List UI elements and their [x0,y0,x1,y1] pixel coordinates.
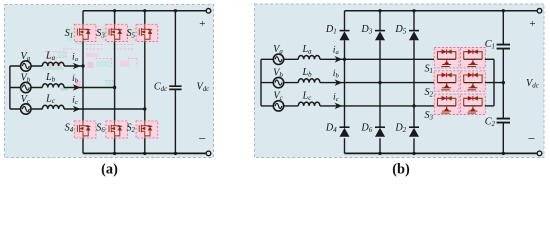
wire S1 output to bus [485,58,494,60]
inductor Lb (a) [42,84,64,88]
wire phase b row (a) [10,87,115,89]
diode D2 [409,126,419,128]
wire leg 1 (a) [82,11,84,154]
switch S5 : dashed box [136,24,158,41]
svg-text:(a): (a) [101,162,118,178]
wire diode leg 2 (b) [379,11,381,154]
inductor Lb (b) [298,79,320,83]
switch unit S3 right : dashed box [461,94,486,114]
junction cap top rail (a) [174,9,177,12]
wire S3 output to bus [485,105,494,107]
inductor La (b) [298,56,320,60]
switch S4 : MOSFET with antiparallel diode [77,121,88,138]
junction midpoint on cap branch (b) [502,81,505,84]
junction leg2 bottom rail (b) [378,152,381,155]
wire leg 2 (a) [114,11,116,154]
junction leg2 bot rail bottom (a) [113,152,116,155]
panel (b) background [255,4,545,158]
wire bottom rail (b) [345,152,540,154]
wire bottom rail (a) [83,152,209,154]
switch unit S3 left : dashed box [434,94,459,114]
switch unit S1 right : device [464,52,482,60]
source Vc (a) [21,104,31,114]
source Vc (b) [273,101,283,111]
svg-text:+: + [529,18,535,30]
terminal - (b) [537,151,542,156]
terminal + (a) [206,9,211,14]
wire phase b row (b) [261,82,434,84]
current arrow ia (a) [74,63,80,68]
switch S5 : MOSFET with antiparallel diode [139,24,150,41]
switch unit S2 right : device [464,75,482,83]
inductor Lc (b) [298,102,320,106]
svg-text:(b): (b) [392,162,410,178]
junction leg2 top rail (b) [378,9,381,12]
wire left bus (a) [9,66,11,109]
switch unit S3 right : device [464,98,482,106]
capacitor C2 plates [497,119,510,123]
capacitor Cdc plates [169,86,181,89]
current arrow ib (a) [74,85,80,90]
wire phase c row (b) [261,105,434,107]
junction phase c to diode leg (b) [412,104,415,107]
source Va (a) [21,61,31,71]
wire midpoint bus vertical [493,59,495,106]
capacitor Cdc branch wire [174,11,176,154]
source Va (b) [273,54,283,64]
wire diode leg 1 (b) [344,11,346,154]
diode D6 [375,126,385,128]
switch S6 : MOSFET with antiparallel diode [109,121,120,138]
junction phase b to diode leg (b) [378,81,381,84]
switch S6 : dashed box [106,121,128,138]
junction phase a to leg (a) [81,64,84,67]
switch unit S2 right : dashed box [461,71,486,91]
wire top rail (b) [345,10,540,12]
switch S1 : dashed box [74,24,96,41]
current arrow ib (b) [335,80,341,85]
wire top rail (a) [83,10,209,12]
current arrow ic (b) [335,103,341,108]
wire phase a row (a) [10,65,83,67]
svg-text:−: − [528,131,535,146]
terminal - (a) [206,151,211,156]
wire leg 3 (a) [144,11,146,154]
wire phase c row (a) [10,108,145,110]
wire phase a row (b) [261,58,434,60]
junction leg3 bottom rail (b) [412,152,415,155]
svg-text:+: + [199,18,205,30]
switch S4 : dashed box [74,121,96,138]
capacitor branch wire (b) [502,11,504,154]
panel (a) background [5,5,214,158]
junction cap top rail (b) [502,9,505,12]
junction leg3 top rail (b) [412,9,415,12]
switch S2 : dashed box [136,121,158,138]
switch unit S1 left : device [437,52,455,60]
diode D4 [340,126,350,128]
junction phase a to diode leg (b) [343,58,346,61]
wire S2 output to capacitor midpoint [485,82,503,84]
junction phase c to leg (a) [143,107,146,110]
wire left bus (b) [260,59,262,106]
wire diode leg 3 (b) [413,11,415,154]
source Vb (b) [273,77,283,87]
diode D1 [340,30,350,32]
source Vb (a) [21,82,31,92]
terminal + (b) [537,9,542,14]
inductor La (a) [42,62,64,66]
switch S2 : MOSFET with antiparallel diode [139,121,150,138]
current arrow ia (b) [335,57,341,62]
diode D5 [409,30,419,32]
junction leg3 bot rail bottom (a) [143,152,146,155]
switch unit S3 left : device [437,98,455,106]
switch unit S1 right : dashed box [461,48,486,68]
current arrow ic (a) [74,106,80,111]
junction phase b to leg (a) [113,86,116,89]
junction leg2 top rail (a) [113,9,116,12]
capacitor C1 plates [497,45,510,49]
switch unit S2 left : device [437,75,455,83]
switch S1 : MOSFET with antiparallel diode [77,24,88,41]
switch unit S1 left : dashed box [434,48,459,68]
switch S3 : dashed box [106,24,128,41]
junction cap bot rail bottom (a) [174,152,177,155]
junction leg3 top rail (a) [143,9,146,12]
svg-text:−: − [199,131,206,146]
switch unit S2 left : dashed box [434,71,459,91]
junction cap bottom rail (b) [502,152,505,155]
switch S3 : MOSFET with antiparallel diode [109,24,120,41]
inductor Lc (a) [42,105,64,109]
diode D3 [375,30,385,32]
